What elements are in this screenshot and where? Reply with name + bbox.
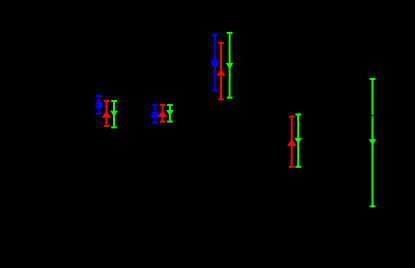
red errorbar point 4 (triangle-up marker), x=291.7 (287, 117, 297, 167)
green errorbar point 4 (triangle-down marker), x=298.2 (294, 115, 302, 167)
green errorbar point 3 (triangle-down marker), x=229.6 (226, 33, 234, 98)
red errorbar point 1 (triangle-up marker), x=106.4 (102, 101, 112, 126)
green errorbar point 1 (triangle-down marker), x=114.0 (110, 101, 118, 127)
blue errorbar point 3 (circle marker), x=214.9 (211, 35, 219, 91)
green errorbar point 5 (triangle-down marker), x=372.5 (369, 79, 377, 206)
dark notch on green errorbar 5 line (371, 115, 373, 116)
blue errorbar point 1 (circle marker), x=99.0 (95, 96, 103, 114)
green errorbar point 2 (triangle-down marker), x=169.9 (166, 105, 174, 122)
blue errorbar point 2 (circle marker), x=155.0 (151, 105, 159, 122)
red errorbar point 3 (triangle-up marker), x=221.0 (216, 43, 226, 99)
red errorbar point 2 (triangle-up marker), x=162.5 (158, 105, 168, 122)
